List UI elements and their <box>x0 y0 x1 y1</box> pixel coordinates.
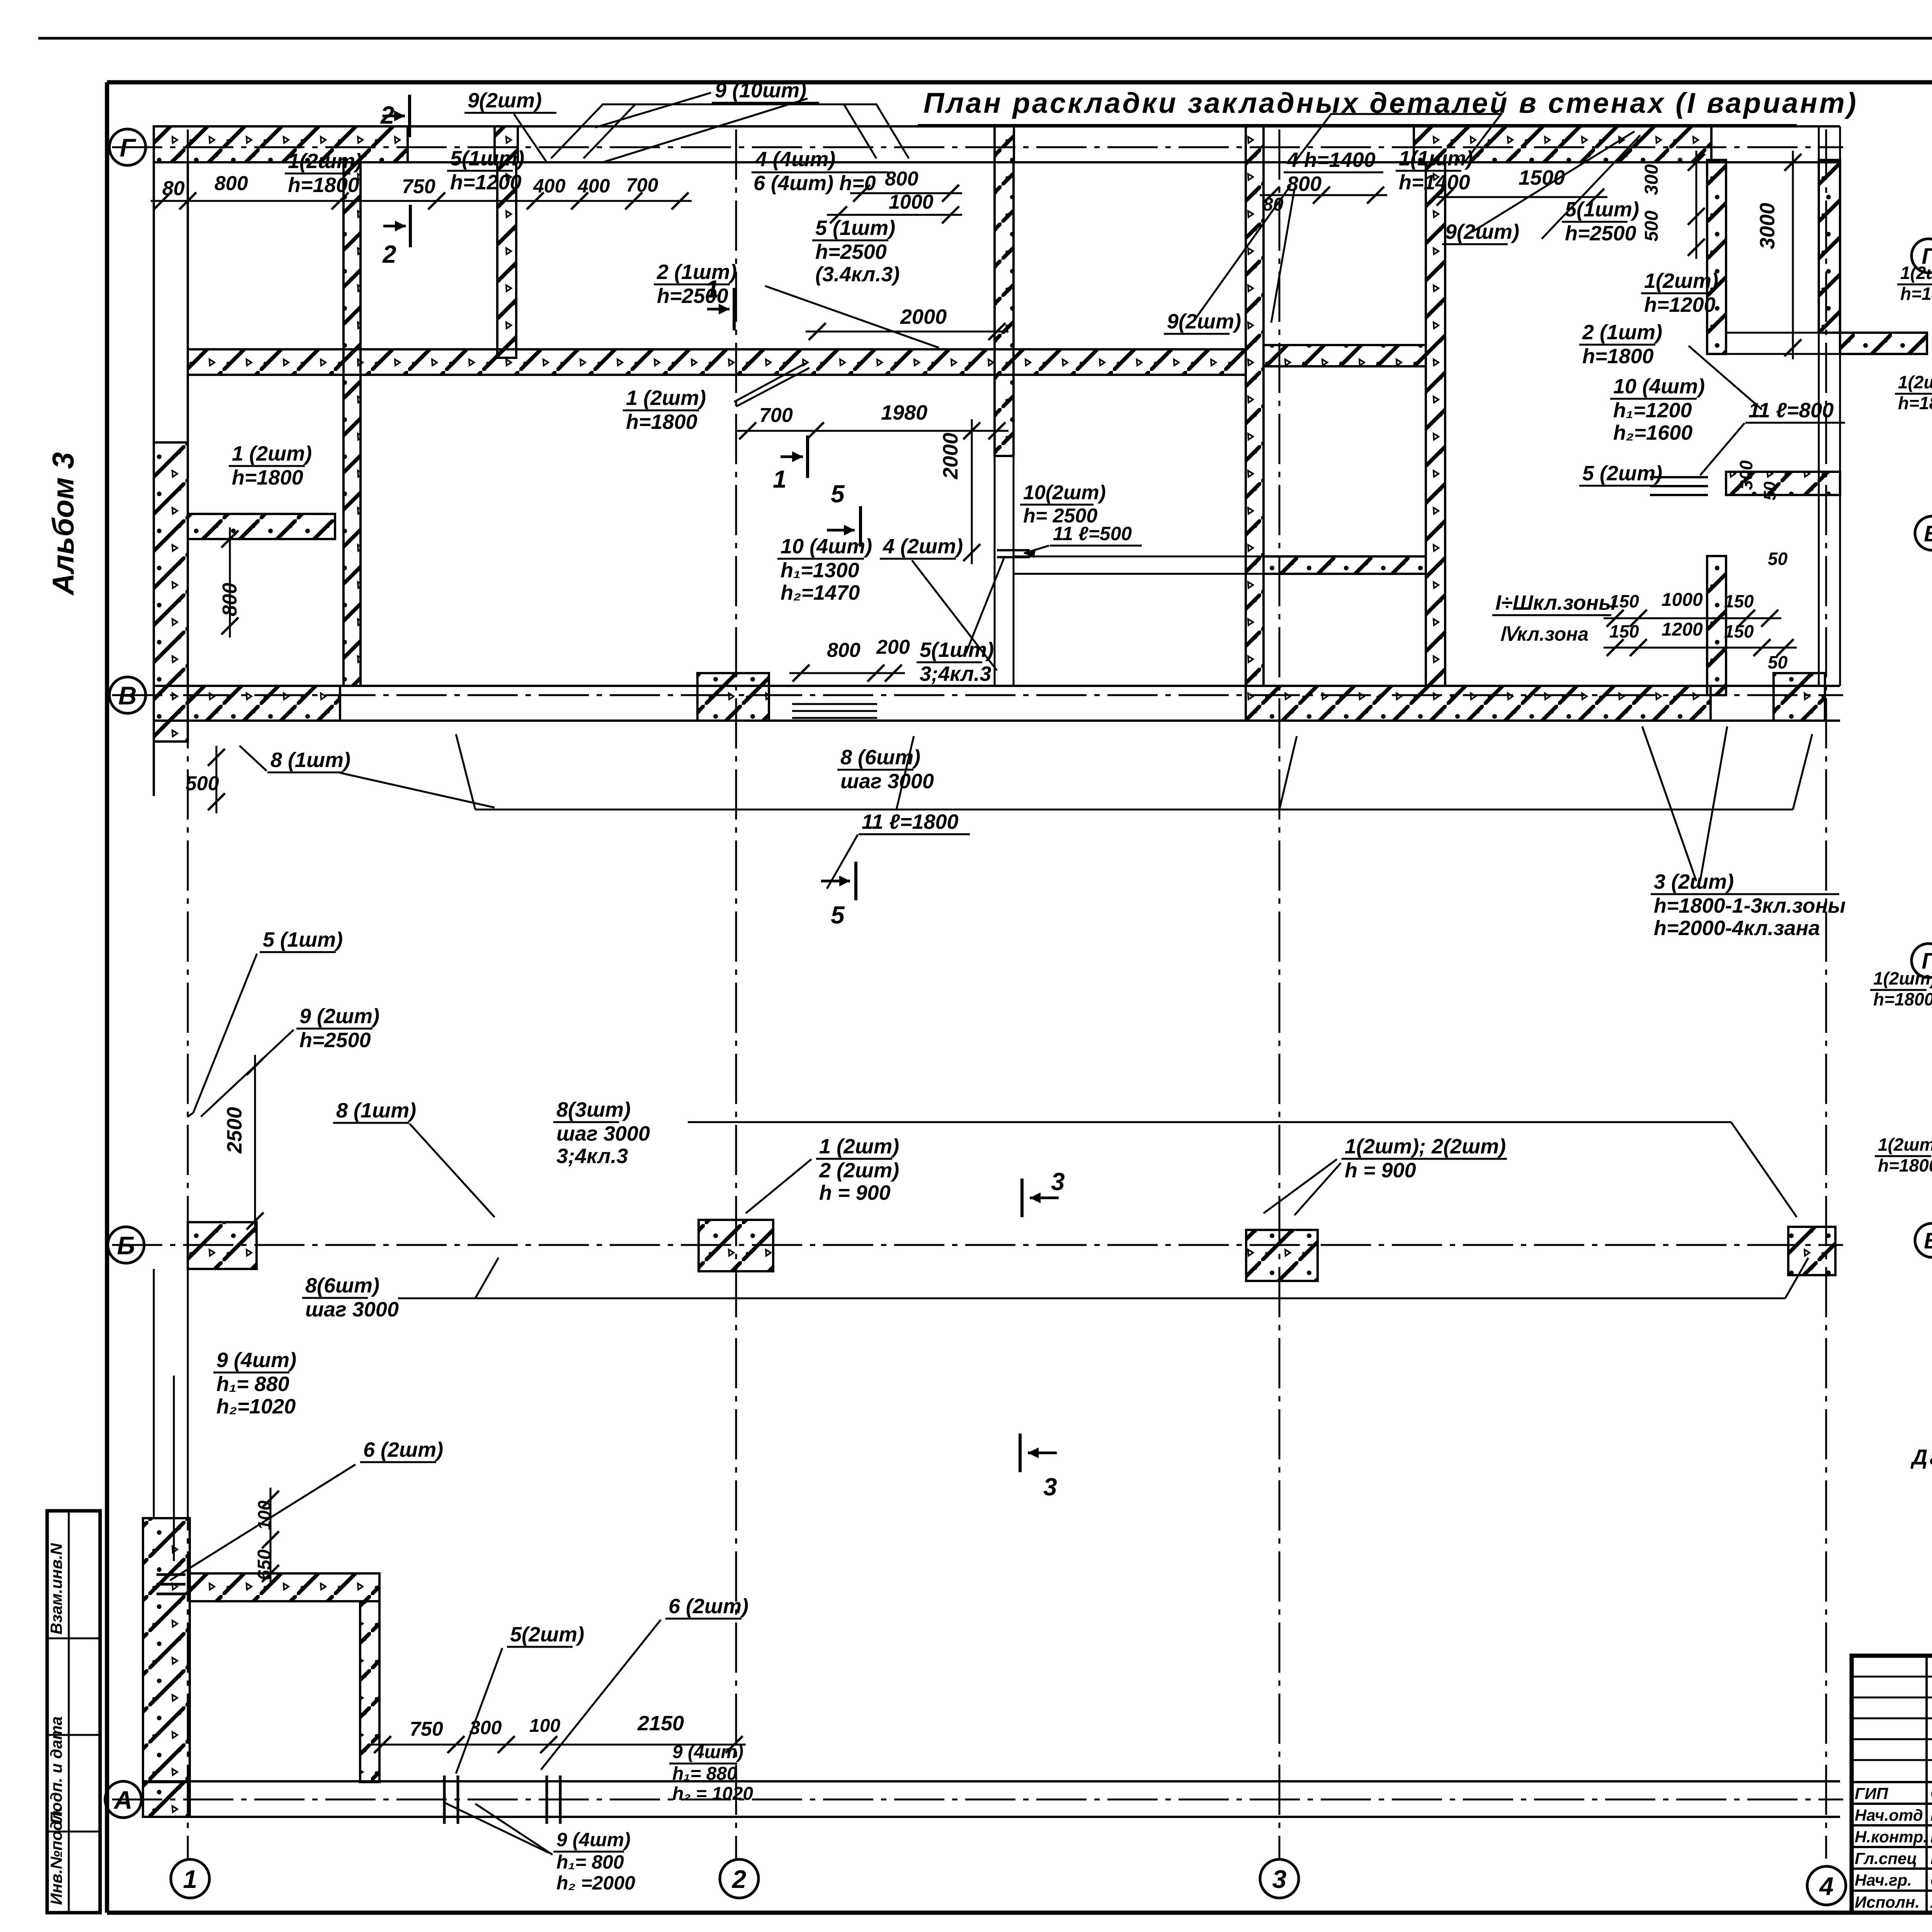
axis line 1 <box>187 129 189 1859</box>
svg-text:4 h=1400: 4 h=1400 <box>1286 148 1376 172</box>
section mark 3 lower <box>1019 1434 1022 1472</box>
svg-text:1(2шт); 2(2шт): 1(2шт); 2(2шт) <box>1345 1135 1506 1158</box>
svg-text:1(2шт): 1(2шт) <box>288 150 362 173</box>
svg-text:300: 300 <box>1736 460 1756 490</box>
svg-text:1980: 1980 <box>881 401 927 424</box>
svg-text:11 ℓ=1800: 11 ℓ=1800 <box>862 810 959 833</box>
svg-text:3: 3 <box>1051 1168 1065 1196</box>
svg-text:200: 200 <box>876 636 910 658</box>
right block room divider 2 <box>1264 556 1426 574</box>
axis line 4 <box>1825 129 1827 1859</box>
svg-text:1(1шт): 1(1шт) <box>1399 147 1473 170</box>
svg-text:300: 300 <box>469 1717 502 1738</box>
dim 1500 line <box>1434 196 1607 198</box>
svg-text:h=2000-4кл.зана: h=2000-4кл.зана <box>1654 917 1820 940</box>
axis line 2 <box>735 129 737 1859</box>
svg-text:h₁=1200: h₁=1200 <box>1613 399 1692 422</box>
partition wall W2 <box>497 162 516 358</box>
svg-text:5(1шт): 5(1шт) <box>450 147 524 170</box>
svg-text:4: 4 <box>1819 1872 1834 1900</box>
svg-text:400: 400 <box>577 175 610 197</box>
interior wall between G and V <box>188 349 1246 375</box>
marks embedded at right wall <box>1650 476 1708 478</box>
dim 700-1980 line <box>736 430 1009 432</box>
svg-text:h₂=1470: h₂=1470 <box>781 581 860 604</box>
svg-text:2 (1шт): 2 (1шт) <box>656 260 737 284</box>
svg-text:9(2шт): 9(2шт) <box>468 89 542 112</box>
svg-text:3000: 3000 <box>1756 203 1779 249</box>
svg-text:1: 1 <box>773 465 787 493</box>
svg-text:h₁= 880: h₁= 880 <box>216 1372 289 1396</box>
svg-text:700: 700 <box>626 174 658 196</box>
svg-text:8 (1шт): 8 (1шт) <box>336 1099 416 1122</box>
svg-text:10(2шт): 10(2шт) <box>1023 481 1106 504</box>
svg-text:1 (2шт): 1 (2шт) <box>626 386 706 410</box>
svg-text:750: 750 <box>402 175 435 198</box>
wall on axis A <box>144 1780 1840 1782</box>
lower-left room right wall <box>360 1601 379 1782</box>
embed marks on wall <box>997 549 1030 551</box>
svg-text:11 ℓ=800: 11 ℓ=800 <box>1748 399 1834 422</box>
wall stub east of main plan <box>1840 333 1927 354</box>
svg-text:1 (2шт): 1 (2шт) <box>232 442 312 465</box>
svg-text:h=1400: h=1400 <box>1399 171 1470 194</box>
top wall along axis G <box>154 125 1840 128</box>
section mark 5 lower <box>854 862 857 900</box>
svg-text:500: 500 <box>1641 211 1662 241</box>
svg-text:11 ℓ=500: 11 ℓ=500 <box>1053 523 1132 544</box>
section mark 2 lower <box>409 205 412 247</box>
svg-text:В: В <box>1924 1228 1932 1253</box>
svg-text:h=1800: h=1800 <box>288 173 359 197</box>
svg-text:Нач.гр.: Нач.гр. <box>1855 1871 1912 1889</box>
left wall below B <box>143 1518 190 1782</box>
trapezoid zone mark 1 <box>551 104 909 158</box>
svg-text:50: 50 <box>1768 549 1788 569</box>
svg-text:5: 5 <box>831 480 845 508</box>
svg-text:1(2шт): 1(2шт) <box>1878 1134 1932 1155</box>
svg-text:h=1800-1-3кл.зоны: h=1800-1-3кл.зоны <box>1654 894 1846 917</box>
svg-text:h=1800: h=1800 <box>1582 345 1654 368</box>
svg-text:Н.контр.: Н.контр. <box>1855 1828 1928 1846</box>
svg-text:500: 500 <box>185 772 219 795</box>
svg-text:ГИП: ГИП <box>1855 1784 1888 1803</box>
V wall hatched right part <box>1246 686 1711 721</box>
svg-text:h=1200: h=1200 <box>1644 293 1716 316</box>
long leader 8-6 <box>475 809 1793 811</box>
drawing frame border <box>105 82 109 1913</box>
svg-text:В: В <box>1924 521 1932 546</box>
axis line G <box>112 146 1843 148</box>
svg-text:6 (4шт) h=0: 6 (4шт) h=0 <box>753 172 876 195</box>
svg-text:800: 800 <box>219 583 241 616</box>
svg-text:Ⅳкл.зона: Ⅳкл.зона <box>1499 623 1588 645</box>
svg-text:h=2500: h=2500 <box>815 240 887 264</box>
svg-text:3: 3 <box>1043 1473 1057 1501</box>
left margin stamp strip <box>47 1511 100 1913</box>
II axis circle V <box>1915 516 1932 550</box>
II axis circle G <box>1912 239 1932 273</box>
right block partition <box>1426 162 1445 686</box>
svg-text:100: 100 <box>254 1500 274 1530</box>
section mark 1 upper <box>733 288 736 330</box>
svg-text:1(2шт): 1(2шт) <box>1900 263 1932 283</box>
svg-text:2000: 2000 <box>939 433 962 480</box>
svg-text:Данный лист смотреть с лис: Данный лист смотреть с листом 42 <box>1910 1445 1932 1469</box>
svg-text:Климов: Климов <box>1930 1849 1932 1868</box>
svg-text:h = 900: h = 900 <box>819 1181 891 1204</box>
svg-text:9(2шт): 9(2шт) <box>1445 220 1519 243</box>
svg-text:400: 400 <box>533 175 566 197</box>
axis circle V <box>109 677 146 713</box>
svg-text:Смольянинова: Смольянинова <box>1930 1874 1932 1889</box>
svg-text:(3.4кл.3): (3.4кл.3) <box>815 263 900 286</box>
svg-text:2 (1шт): 2 (1шт) <box>1582 321 1662 344</box>
III axis circle G <box>1912 944 1932 978</box>
footing axis3-B <box>1246 1230 1318 1281</box>
svg-text:В: В <box>118 681 137 710</box>
svg-text:1: 1 <box>183 1865 197 1893</box>
svg-text:1(2шт): 1(2шт) <box>1644 269 1718 293</box>
svg-text:800: 800 <box>827 639 861 662</box>
svg-text:h₂ = 1020: h₂ = 1020 <box>672 1784 753 1804</box>
partition wall W1 <box>344 162 361 686</box>
svg-text:150: 150 <box>1724 621 1754 641</box>
wall on axis V <box>154 685 1840 687</box>
svg-text:h=1800: h=1800 <box>1900 284 1932 304</box>
svg-text:8(3шт): 8(3шт) <box>556 1098 631 1121</box>
svg-text:Гл.спец: Гл.спец <box>1855 1849 1917 1867</box>
svg-text:h₁= 880: h₁= 880 <box>672 1764 737 1784</box>
axis circle 2 <box>720 1859 759 1898</box>
svg-text:Инв.№подл.: Инв.№подл. <box>47 1806 65 1905</box>
lower right room divider <box>1726 472 1840 495</box>
svg-text:800: 800 <box>885 168 918 190</box>
dim 750-300-100-2150 line <box>371 1744 746 1746</box>
svg-text:h=1800: h=1800 <box>1873 989 1932 1009</box>
section mark 2 upper <box>408 95 411 137</box>
section mark 3 upper <box>1020 1179 1024 1217</box>
lower right partition <box>1707 556 1726 695</box>
svg-text:h=1800: h=1800 <box>232 466 303 489</box>
dim 800 vertical left <box>229 527 231 638</box>
sheet top edge line <box>38 37 1932 40</box>
axis circle 3 <box>1260 1859 1299 1898</box>
svg-text:100: 100 <box>529 1716 560 1736</box>
dim 650-100 vertical <box>270 1488 272 1585</box>
svg-text:50: 50 <box>1768 652 1788 672</box>
footing at axis 4 on V <box>1774 673 1825 721</box>
svg-text:2: 2 <box>382 240 396 268</box>
axis circle B <box>108 1227 144 1263</box>
footing axis1-B <box>188 1222 257 1269</box>
section mark 5 upper <box>859 506 862 547</box>
svg-text:Альбом 3: Альбом 3 <box>46 452 80 596</box>
svg-text:150: 150 <box>1609 591 1639 611</box>
dim 800-200 line <box>789 672 905 674</box>
svg-text:1(2шт): 1(2шт) <box>1898 372 1932 392</box>
svg-text:650: 650 <box>254 1549 275 1580</box>
svg-text:Нач.отд: Нач.отд <box>1855 1806 1923 1824</box>
svg-text:1000: 1000 <box>889 191 934 213</box>
svg-text:h₂=1020: h₂=1020 <box>216 1395 296 1418</box>
axis line V <box>112 694 1843 696</box>
right outer wall top part <box>1819 160 1840 333</box>
svg-text:1 (2шт): 1 (2шт) <box>819 1135 899 1158</box>
svg-text:h=1800: h=1800 <box>1878 1155 1932 1175</box>
dim 500-300 vertical <box>1696 151 1697 259</box>
svg-text:800: 800 <box>1287 172 1321 196</box>
title block stamp <box>1852 1656 1932 1913</box>
svg-text:I÷Шкл.зоны: I÷Шкл.зоны <box>1495 591 1616 614</box>
svg-text:2150: 2150 <box>637 1712 684 1735</box>
svg-text:Климов: Климов <box>1930 1827 1932 1846</box>
dim 2000 line <box>806 331 1009 333</box>
svg-text:h₁=1300: h₁=1300 <box>781 559 859 582</box>
svg-text:5: 5 <box>831 901 845 929</box>
svg-text:6 (2шт): 6 (2шт) <box>668 1595 748 1618</box>
svg-text:h=2500: h=2500 <box>1565 222 1636 245</box>
svg-text:h₁= 800: h₁= 800 <box>556 1851 624 1873</box>
parallelogram zone mark 2 <box>1294 114 1501 162</box>
axis line 3 <box>1279 129 1281 1859</box>
svg-text:8 (1шт): 8 (1шт) <box>270 748 350 772</box>
svg-text:50: 50 <box>1760 481 1779 500</box>
svg-text:шаг 3000: шаг 3000 <box>556 1122 650 1145</box>
right block left wall <box>1246 162 1264 686</box>
svg-text:80: 80 <box>1263 194 1284 215</box>
svg-text:h₂ =2000: h₂ =2000 <box>556 1872 635 1894</box>
svg-text:750: 750 <box>410 1718 443 1740</box>
marks at left wall lower <box>156 1573 185 1576</box>
svg-text:1000: 1000 <box>1662 590 1703 610</box>
svg-text:8(6шт): 8(6шт) <box>305 1274 379 1297</box>
svg-text:2500: 2500 <box>223 1107 246 1154</box>
svg-text:9 (4шт): 9 (4шт) <box>556 1829 631 1850</box>
svg-text:2: 2 <box>380 101 395 129</box>
footing axis4-B <box>1788 1227 1835 1275</box>
svg-text:10 (4шт): 10 (4шт) <box>781 535 872 558</box>
III axis circle V <box>1915 1223 1932 1257</box>
svg-text:5 (1шт): 5 (1шт) <box>263 928 343 951</box>
svg-text:300: 300 <box>1641 164 1662 195</box>
svg-text:Козлов: Козлов <box>1930 1806 1932 1825</box>
svg-text:h=1800: h=1800 <box>626 410 697 434</box>
svg-text:2 (2шт): 2 (2шт) <box>819 1159 899 1182</box>
top wall hatched segment axes 3-4 <box>1414 126 1711 162</box>
dim 500 below V <box>216 746 218 813</box>
svg-text:5(1шт): 5(1шт) <box>920 638 994 662</box>
svg-text:шаг 3000: шаг 3000 <box>840 770 934 793</box>
axis circle A <box>105 1781 141 1818</box>
pier at axis 2 on V <box>697 673 769 721</box>
axis line A <box>112 1799 1843 1801</box>
svg-text:3;4кл.3: 3;4кл.3 <box>920 662 991 685</box>
section mark 1 lower <box>806 435 809 478</box>
svg-text:9 (10шт): 9 (10шт) <box>715 79 806 102</box>
svg-text:800: 800 <box>214 172 248 195</box>
svg-text:9(2шт): 9(2шт) <box>1167 310 1241 333</box>
svg-text:h=2500: h=2500 <box>657 284 728 308</box>
dim zone lines <box>1604 617 1781 619</box>
embedded channel 8 <box>792 703 877 705</box>
svg-text:5 (2шт): 5 (2шт) <box>1582 462 1662 485</box>
svg-text:4 (4шт): 4 (4шт) <box>755 148 835 171</box>
dim 800-1000 lines <box>850 192 962 194</box>
marks at A wall <box>443 1776 446 1824</box>
svg-text:700: 700 <box>759 404 793 427</box>
svg-text:2: 2 <box>731 1865 747 1893</box>
svg-text:10 (4шт): 10 (4шт) <box>1613 375 1705 398</box>
small room wall <box>188 514 335 539</box>
svg-text:3: 3 <box>1272 1865 1287 1893</box>
dim 3000 vertical <box>1792 151 1794 359</box>
right block room divider 1 <box>1264 345 1426 366</box>
footing axis2-B <box>699 1220 773 1271</box>
axis circle G <box>109 129 146 165</box>
right block dim 800 line <box>1260 194 1387 196</box>
svg-text:5(2шт): 5(2шт) <box>510 1623 584 1646</box>
axis circle 1 <box>171 1859 209 1898</box>
corner room wall <box>1707 160 1726 354</box>
svg-text:5 (1шт): 5 (1шт) <box>815 216 895 240</box>
svg-text:150: 150 <box>1609 621 1639 641</box>
svg-text:6 (2шт): 6 (2шт) <box>363 1438 443 1461</box>
svg-text:80: 80 <box>162 177 185 200</box>
svg-text:Б: Б <box>117 1231 135 1260</box>
corridor wall lines <box>1014 556 1264 558</box>
svg-text:h₂=1600: h₂=1600 <box>1613 421 1692 444</box>
left outer wall axis 1 <box>153 126 155 742</box>
lower-left room top wall <box>190 1573 379 1601</box>
svg-text:h = 900: h = 900 <box>1345 1159 1416 1182</box>
svg-text:А: А <box>113 1786 133 1814</box>
svg-text:9 (2шт): 9 (2шт) <box>299 1005 379 1028</box>
svg-text:Исполн.: Исполн. <box>1855 1893 1920 1911</box>
svg-text:9 (4шт): 9 (4шт) <box>672 1742 743 1762</box>
svg-text:9 (4шт): 9 (4шт) <box>216 1349 296 1372</box>
svg-text:150: 150 <box>1724 591 1754 611</box>
svg-text:шаг 3000: шаг 3000 <box>305 1298 399 1321</box>
svg-text:2000: 2000 <box>900 305 947 328</box>
axis line B <box>112 1244 1843 1246</box>
axis circle 4 <box>1807 1866 1846 1905</box>
svg-text:h=1200: h=1200 <box>450 171 522 194</box>
svg-text:1(2шт): 1(2шт) <box>1873 968 1932 988</box>
svg-text:3;4кл.3: 3;4кл.3 <box>556 1145 628 1168</box>
right wall of left block <box>995 162 1014 456</box>
svg-text:h=2500: h=2500 <box>299 1029 371 1052</box>
svg-text:Взам.инв.N: Взам.инв.N <box>47 1543 65 1634</box>
svg-text:1200: 1200 <box>1662 619 1703 640</box>
svg-text:Г: Г <box>120 133 136 162</box>
dim line under top wall left <box>151 200 692 202</box>
svg-text:4 (2шт): 4 (2шт) <box>883 535 963 558</box>
svg-text:h=1800: h=1800 <box>1898 393 1932 413</box>
svg-text:Самитов: Самитов <box>1930 1784 1932 1803</box>
svg-text:5(1шт): 5(1шт) <box>1565 198 1639 221</box>
